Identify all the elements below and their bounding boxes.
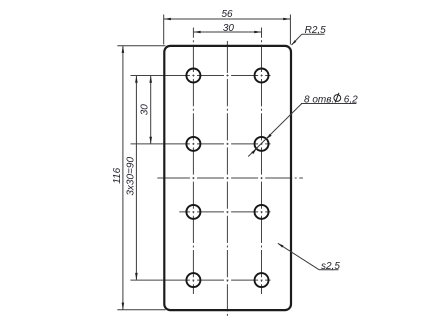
svg-text:6,2: 6,2	[344, 95, 358, 106]
centerline column left	[192, 28, 194, 295]
dimension line 3x30=90	[135, 76, 138, 281]
centerline row 4	[131, 279, 186, 281]
hole H1 row1 left	[186, 69, 200, 83]
extension line 116 top	[117, 45, 165, 47]
extension line 56 right	[289, 15, 291, 45]
dimension line 30 left	[149, 76, 152, 144]
hole H5 row3 left	[186, 205, 200, 219]
centerline row 3	[179, 211, 270, 213]
leader holes note	[248, 104, 356, 157]
hole H4 row2 right	[255, 137, 269, 151]
svg-text:30: 30	[223, 23, 235, 34]
svg-text:8 отв.: 8 отв.	[304, 95, 334, 106]
hole H8 row4 right	[255, 273, 269, 287]
plate outline	[164, 46, 291, 310]
hole H2 row1 right	[255, 69, 269, 83]
centerline row 1	[131, 75, 186, 77]
centerline vertical middle	[226, 41, 228, 73]
hole H3 row2 left	[186, 137, 200, 151]
svg-text:3x30=90: 3x30=90	[125, 157, 136, 196]
leader R2,5	[291, 34, 324, 45]
dimension line 56	[164, 18, 291, 21]
centerline horizontal middle	[157, 177, 190, 179]
extension line 116 bottom	[117, 309, 165, 311]
dimension line 116	[122, 46, 125, 310]
centerline column right	[261, 28, 263, 295]
diameter symbol	[334, 95, 341, 102]
hole H7 row4 left	[186, 273, 200, 287]
centerline row 2	[131, 143, 186, 145]
hole H6 row3 right	[255, 205, 269, 219]
svg-text:116: 116	[112, 167, 123, 183]
svg-text:56: 56	[221, 9, 233, 20]
leader s2,5	[278, 243, 339, 269]
svg-text:30: 30	[140, 104, 151, 116]
svg-text:s2,5: s2,5	[321, 261, 340, 272]
svg-text:R2,5: R2,5	[305, 25, 327, 36]
extension line 56 left	[163, 15, 165, 45]
dimension line 30 top	[193, 31, 261, 34]
